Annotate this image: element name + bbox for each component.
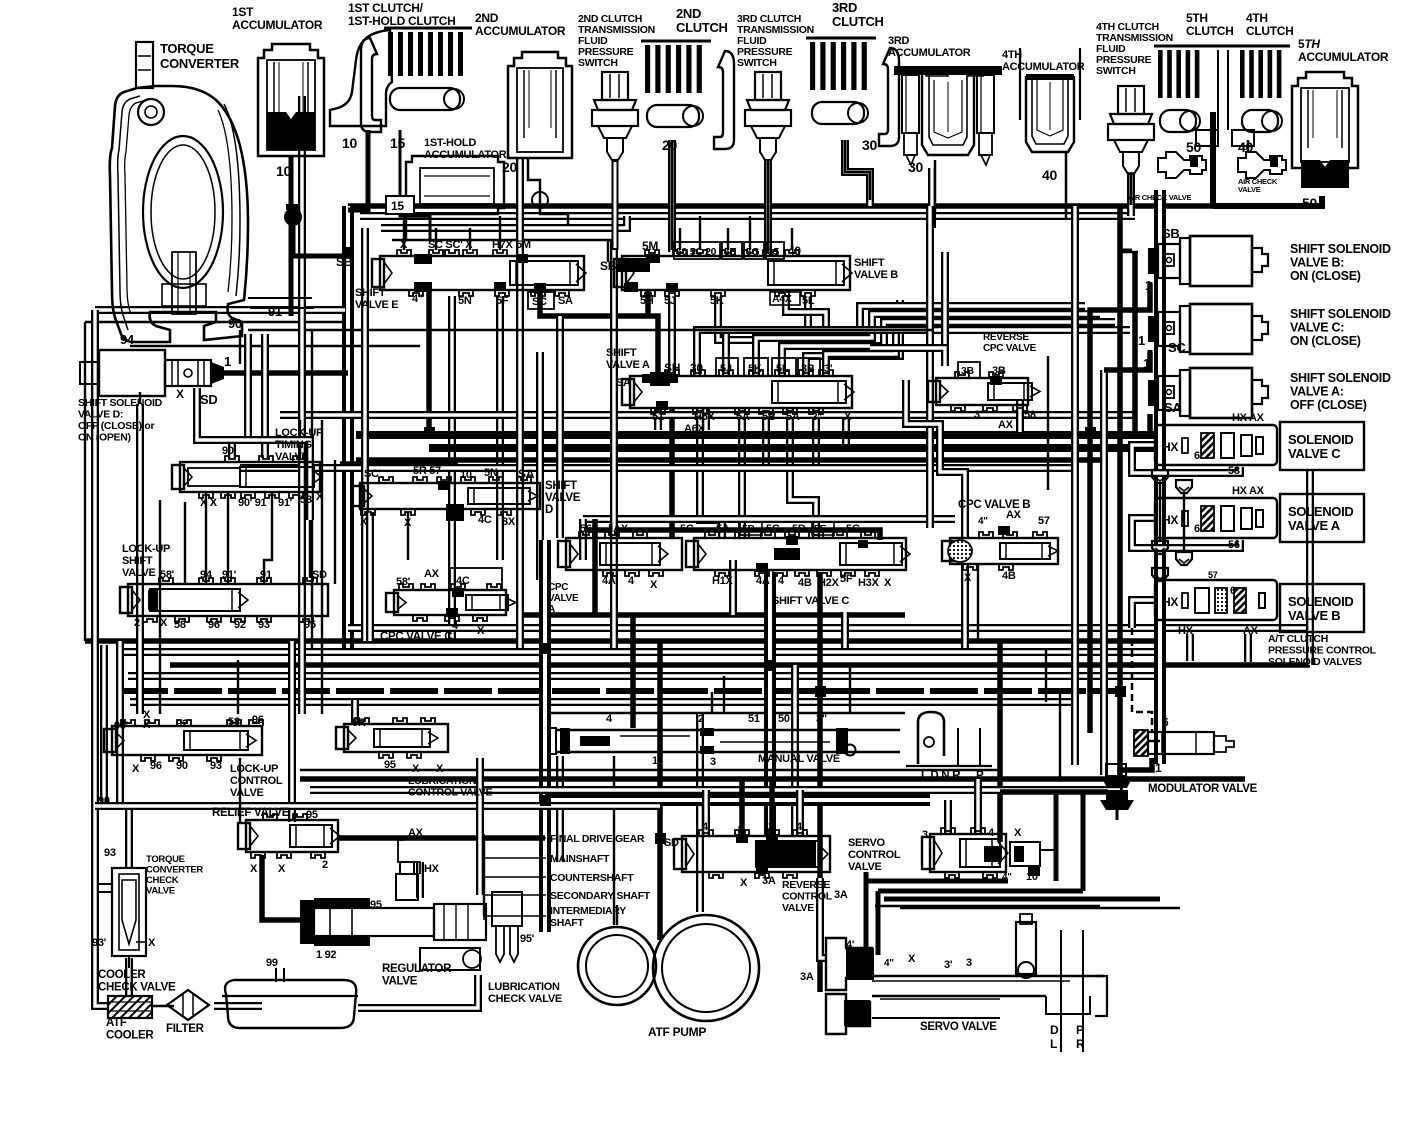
wire tccv up [125,810,133,868]
wire v520 [516,158,524,648]
svg-text:ACCUMULATOR: ACCUMULATOR [1298,50,1389,64]
labels svc top [680,522,860,535]
labels mv bot [652,755,716,768]
svg-text:VALVE E: VALVE E [355,299,398,311]
4th accumulator [1020,48,1080,152]
wire y770 [300,769,1000,771]
svg-text:REVERSE: REVERSE [983,332,1029,343]
air check valve right [1238,152,1286,178]
svg-text:5G: 5G [846,523,860,535]
svg-text:COUNTERSHAFT: COUNTERSHAFT [550,872,634,884]
label shift solenoid B [1290,242,1391,283]
wire v365 [361,228,369,641]
funnel c1 [1152,470,1168,483]
labels shift valve B top [642,239,801,259]
labels lus top [160,569,327,581]
cpc valve B [942,532,1058,570]
port blob svc mid [774,540,868,560]
label 95 reg [370,899,382,911]
label A6X [684,423,705,435]
wire v820 [817,572,823,992]
svg-text:1ST-HOLD CLUTCH: 1ST-HOLD CLUTCH [348,14,456,28]
svg-text:57: 57 [1038,515,1050,527]
svg-text:HX: HX [1162,440,1178,454]
svg-text:SC: SC [1168,340,1186,355]
svg-text:5F: 5F [840,573,853,585]
label 3 scv [922,829,928,841]
wire drop b4 [749,216,751,250]
wire 5K pipe [718,296,756,376]
regulator valve [300,862,486,970]
wire 5H heavy [645,290,651,316]
svg-text:3B: 3B [801,363,815,375]
wire v104 [100,645,108,806]
svg-text:VALVE A: VALVE A [606,359,650,371]
svg-text:3RD: 3RD [832,0,857,15]
wire 20 drop [668,140,676,252]
solenoid valve C box [1280,422,1364,470]
wire SA sol [1147,414,1153,432]
wire SB-B up [607,240,609,262]
svg-text:4": 4" [884,958,894,969]
wire 5A drop [738,408,746,538]
svg-text:50: 50 [1302,195,1317,211]
solenoid valve B box [1280,584,1364,632]
svg-text:95: 95 [384,759,396,771]
lock-up control valve [104,720,263,761]
wire v614c [613,756,615,925]
lubrication check valve [492,892,522,962]
label 40 acc4 [1042,167,1057,183]
wire box y530 [583,530,880,540]
wire rcv drops [702,408,710,430]
svg-text:SHIFT VALVE C: SHIFT VALVE C [772,595,849,607]
svg-text:SHIFT SOLENOID: SHIFT SOLENOID [1290,307,1391,321]
wire 51 drop [654,408,662,430]
svg-text:CHECK VALVE: CHECK VALVE [98,982,176,994]
svg-text:5M: 5M [516,239,531,251]
label SA a [616,377,631,389]
sb stub valve B [616,258,650,272]
wire 5J pipe [668,296,676,376]
labels DLPR [1050,1023,1085,1051]
wire v1000 [997,641,1003,842]
wire SC sol [1104,352,1150,370]
wire H5X drop [700,408,722,538]
svg-text:VALVE: VALVE [1238,185,1261,194]
wire svd drop2 [407,512,409,560]
wire v965 [961,564,969,648]
wire v945 [941,252,949,366]
svg-text:VALVE C:: VALVE C: [1290,321,1344,335]
svg-text:95: 95 [304,619,316,631]
shaft labels [484,833,651,929]
wire rcv top1 [702,790,710,836]
svg-text:6: 6 [1162,715,1169,729]
svg-text:H5X: H5X [694,411,715,423]
wire svA stair2 [756,314,1100,376]
label 6 A [1194,523,1200,535]
svg-text:58: 58 [228,716,240,728]
svg-text:90': 90' [114,720,129,732]
svg-text:LUBRICATION: LUBRICATION [408,775,476,787]
svg-text:SHIFT: SHIFT [355,287,386,299]
label 99 [266,957,278,969]
solenoid valve A box [1280,494,1364,542]
label 3A rcv [834,889,848,901]
wire v845 [841,612,849,648]
svg-text:X: X [844,411,852,423]
labels shift valve E top [400,239,531,251]
svg-text:5C: 5C [766,523,780,535]
label 6 B [1230,585,1236,597]
wire drop e1 [403,216,405,250]
junction j2 [540,643,551,654]
wire rcv top2 [739,779,745,836]
wire v540b [536,352,544,580]
label 3rd clutch [832,0,884,29]
label tc check valve [146,854,203,897]
svg-text:2: 2 [322,859,328,871]
wire filter pan [214,1002,262,1010]
svg-text:SD: SD [200,392,217,407]
wire drop e2 [435,228,437,250]
label 1st-hold accumulator [424,137,507,161]
svg-text:X: X [964,572,972,584]
svg-text:X: X [412,763,420,775]
2nd clutch TFPS [592,72,638,160]
svg-text:4': 4' [846,939,855,951]
labels shift valve A top [664,358,833,376]
wire tccv out [125,958,133,996]
svg-text:4: 4 [450,509,457,521]
svg-text:4C: 4C [478,514,492,526]
svg-text:5R 57: 5R 57 [413,465,441,477]
torque converter [110,42,314,342]
svg-text:58: 58 [1228,465,1240,477]
svg-text:ATF: ATF [106,1017,127,1029]
svg-text:SHIFT: SHIFT [606,347,637,359]
svg-text:A: A [548,604,555,615]
svg-text:AX: AX [424,568,440,580]
wire relief link [338,835,545,841]
wire 3in drop [812,408,820,470]
svg-text:58': 58' [160,569,175,581]
svg-text:VALVE: VALVE [782,902,814,914]
wire bus y628 [348,624,1310,632]
label 58 C [1228,465,1240,477]
svg-text:VALVE: VALVE [382,976,418,988]
1st clutch / 1st-hold clutch [330,28,472,132]
svg-text:5K: 5K [748,363,762,375]
label manual valve [758,753,840,765]
label 90 [228,316,242,331]
svg-text:X: X [404,517,412,529]
servo control valve [922,828,1008,878]
svg-text:SA: SA [518,467,535,481]
svg-text:SWITCH: SWITCH [1096,65,1136,77]
wire drop b3 [727,228,729,250]
label 1st accumulator [232,5,323,32]
svg-text:1: 1 [652,755,658,767]
svg-text:1: 1 [224,354,231,369]
wire 5C heavy [540,290,658,378]
label SD rcv [664,837,679,849]
svg-text:94: 94 [120,332,135,347]
svg-text:MANUAL VALVE: MANUAL VALVE [758,753,840,765]
4th clutch [1236,46,1290,132]
wire rcv top3 [769,779,775,836]
svg-text:90: 90 [228,316,242,331]
svg-text:TORQUE: TORQUE [146,854,185,865]
1st accumulator [258,44,324,156]
svg-text:HX: HX [1178,625,1194,637]
wire v733 [729,560,737,615]
svg-text:X: X [650,579,658,591]
wire X drop [842,412,850,444]
svg-text:VALVE D:: VALVE D: [78,409,123,421]
wire luc down [239,758,241,822]
label regulator valve [382,963,452,988]
svg-text:LOCK-UP: LOCK-UP [122,543,170,555]
wire v1160 [1154,190,1166,764]
svg-text:CLUTCH: CLUTCH [676,20,728,35]
svg-text:H2X: H2X [818,577,839,589]
wire 30 acc3 [934,160,937,212]
wire 5B drop [762,412,770,470]
port blob cpc b [998,526,1010,535]
svg-text:X: X [143,719,151,731]
svg-text:58': 58' [396,576,411,588]
svg-text:3: 3 [922,829,928,841]
label 5th clutch [1186,11,1234,38]
label cpc valve A [548,582,579,615]
wire heavy svd top [340,461,458,467]
svg-text:ON (CLOSE): ON (CLOSE) [1290,269,1361,283]
wire mod trunk [1000,789,1108,795]
label SD sd [200,392,217,407]
label AX b [1243,625,1259,637]
wire v140 [136,404,144,714]
solenoid valve A assembly [1155,498,1277,538]
label 15 hold [388,193,403,209]
svg-text:SC: SC [532,296,547,308]
shift solenoid valve C [1148,304,1268,354]
svg-text:92: 92 [234,619,246,631]
svg-text:1: 1 [1145,278,1152,293]
svg-text:4TH: 4TH [1002,49,1022,61]
wire bus y652 [120,648,1160,656]
svg-text:6: 6 [1230,585,1236,597]
svg-text:20: 20 [662,137,677,153]
svg-text:5J: 5J [664,295,676,307]
funnel a2 [1176,552,1192,565]
label 5th accumulator [1298,37,1389,64]
label 91 [268,304,282,319]
svg-text:3': 3' [944,959,953,971]
svg-text:8X: 8X [502,516,516,528]
wire mv up3 [849,665,851,713]
label 2nd TFPS [578,13,655,69]
svg-text:4B: 4B [798,577,812,589]
labels shift valve A bot [652,411,852,423]
label at clutch [1268,633,1377,668]
svg-text:CONVERTER: CONVERTER [160,56,240,71]
wire 5R up [351,700,359,724]
label SB b [600,259,617,273]
wire v1075 [1071,206,1079,765]
label HX reg [424,863,440,875]
filter [167,990,209,1020]
svg-text:REGULATOR: REGULATOR [382,963,452,975]
svg-text:VALVE: VALVE [146,886,175,897]
label lock-up control [230,763,283,799]
wire v545 [539,540,551,932]
svg-text:LOCK-UP: LOCK-UP [230,763,278,775]
wire 90 h330 [248,329,932,331]
svg-text:H3X: H3X [858,577,879,589]
label shift valve A [606,347,650,371]
svg-text:51: 51 [652,411,664,423]
svg-text:SB: SB [600,259,617,273]
wire bus y447 [429,444,1160,452]
svg-text:1ST CLUTCH/: 1ST CLUTCH/ [348,1,424,15]
svg-text:A6X: A6X [684,423,705,435]
svg-text:51: 51 [748,713,760,725]
wire v335 [334,460,336,584]
wire 95 path [476,758,484,895]
svg-text:ATF PUMP: ATF PUMP [648,1025,706,1039]
wire y779 [300,776,1245,782]
svg-text:5E: 5E [724,246,737,258]
svg-text:93': 93' [92,937,107,949]
wire v1310 [1306,470,1314,665]
svg-text:TORQUE: TORQUE [160,41,214,56]
svg-text:15: 15 [391,199,404,213]
svg-text:COOLER: COOLER [106,1030,154,1042]
wire 2nd tfps drop [614,160,616,250]
wire 5F pipe [496,296,504,560]
svg-text:SWITCH: SWITCH [578,57,618,69]
wire v302 [298,96,306,714]
wire 50 acc5 drop [1319,196,1325,206]
label 56 A [1228,539,1240,551]
wire trunk h228 [381,216,627,228]
wire stair svc [906,380,965,538]
svg-text:95': 95' [520,933,535,945]
label lock-up timing [275,427,323,463]
wire sd 1 [224,370,348,376]
wire v700b [696,714,704,912]
svg-text:6: 6 [1194,523,1200,535]
svg-text:3: 3 [710,756,716,768]
wire SB [1120,250,1150,302]
label 3rd accumulator [888,35,971,59]
svg-text:5L: 5L [802,295,815,307]
svg-text:P: P [1076,1023,1084,1037]
wire bus y665 [170,662,1310,668]
funnel a3 [1152,568,1168,581]
svg-text:5H: 5H [640,295,654,307]
wire scv top2 [974,779,982,834]
wire lt up2 [261,334,269,458]
2nd clutch [641,41,734,149]
lock-up timing valve [172,456,322,498]
label servo control [848,837,901,873]
wire bus y641 [85,638,1160,644]
wire funnel col2 [1183,494,1185,552]
svg-text:50 5C 20: 50 5C 20 [676,246,717,258]
wire 20 acc2 [528,158,568,226]
svg-text:6: 6 [1194,450,1200,462]
svg-text:X: X [740,877,748,889]
label 20 acc2 [502,159,517,175]
svg-text:90' 91: 90' 91 [238,497,267,509]
label cpc valve B [958,499,1030,511]
labels rcv top [702,821,803,833]
svg-text:SD: SD [312,569,327,581]
svg-text:R: R [1076,1037,1085,1051]
wire 3rd tfps stem [767,160,770,252]
svg-text:93: 93 [210,760,222,772]
label shift valve E [355,287,398,311]
label reverse cpc [983,332,1037,354]
svg-text:5C: 5C [680,523,694,535]
manual valve [548,728,900,756]
svg-text:SOLENOID VALVES: SOLENOID VALVES [1268,656,1362,668]
svg-text:SERVO: SERVO [848,837,886,849]
svg-text:4: 4 [628,575,635,587]
label lubrication control [408,775,492,799]
svg-text:1: 1 [1143,356,1150,371]
svg-text:SD: SD [664,837,679,849]
label 3rd TFPS [737,13,814,69]
servo control right [1010,842,1056,876]
wire v560 [556,316,564,538]
svg-text:VALVE: VALVE [122,567,156,579]
label hxax C [1232,412,1265,424]
wire 15 down [405,198,407,240]
label 90 lt [222,445,234,457]
wire mv up2 [723,676,725,713]
wire 3B pipe [806,300,900,376]
labels scv right [988,827,1038,883]
label 1 sd [224,354,231,369]
labels svd bot [360,514,516,529]
svg-text:3A: 3A [800,971,814,983]
cooler check valve label [98,969,176,994]
svg-text:X: X [436,763,444,775]
wire servo 3a [820,878,826,958]
wire v633 [630,615,636,728]
labels rv bot [250,859,328,875]
manual detent [906,712,992,766]
svg-text:4": 4" [412,293,423,305]
svg-text:OFF (CLOSE): OFF (CLOSE) [1290,398,1367,412]
shaft leader ticks [483,834,485,920]
svg-text:X X: X X [200,497,218,509]
torque converter check valve [98,868,146,968]
svg-text:HX AX: HX AX [1232,412,1265,424]
svg-text:X: X [160,617,168,629]
svg-text:H1X: H1X [712,575,733,587]
labels sv top [846,939,972,971]
label hxax A [1232,485,1265,497]
wire vx6 link [1134,740,1160,742]
svg-text:D: D [1050,1023,1059,1037]
svg-text:CONTROL: CONTROL [230,775,283,787]
svg-text:2: 2 [698,713,704,725]
